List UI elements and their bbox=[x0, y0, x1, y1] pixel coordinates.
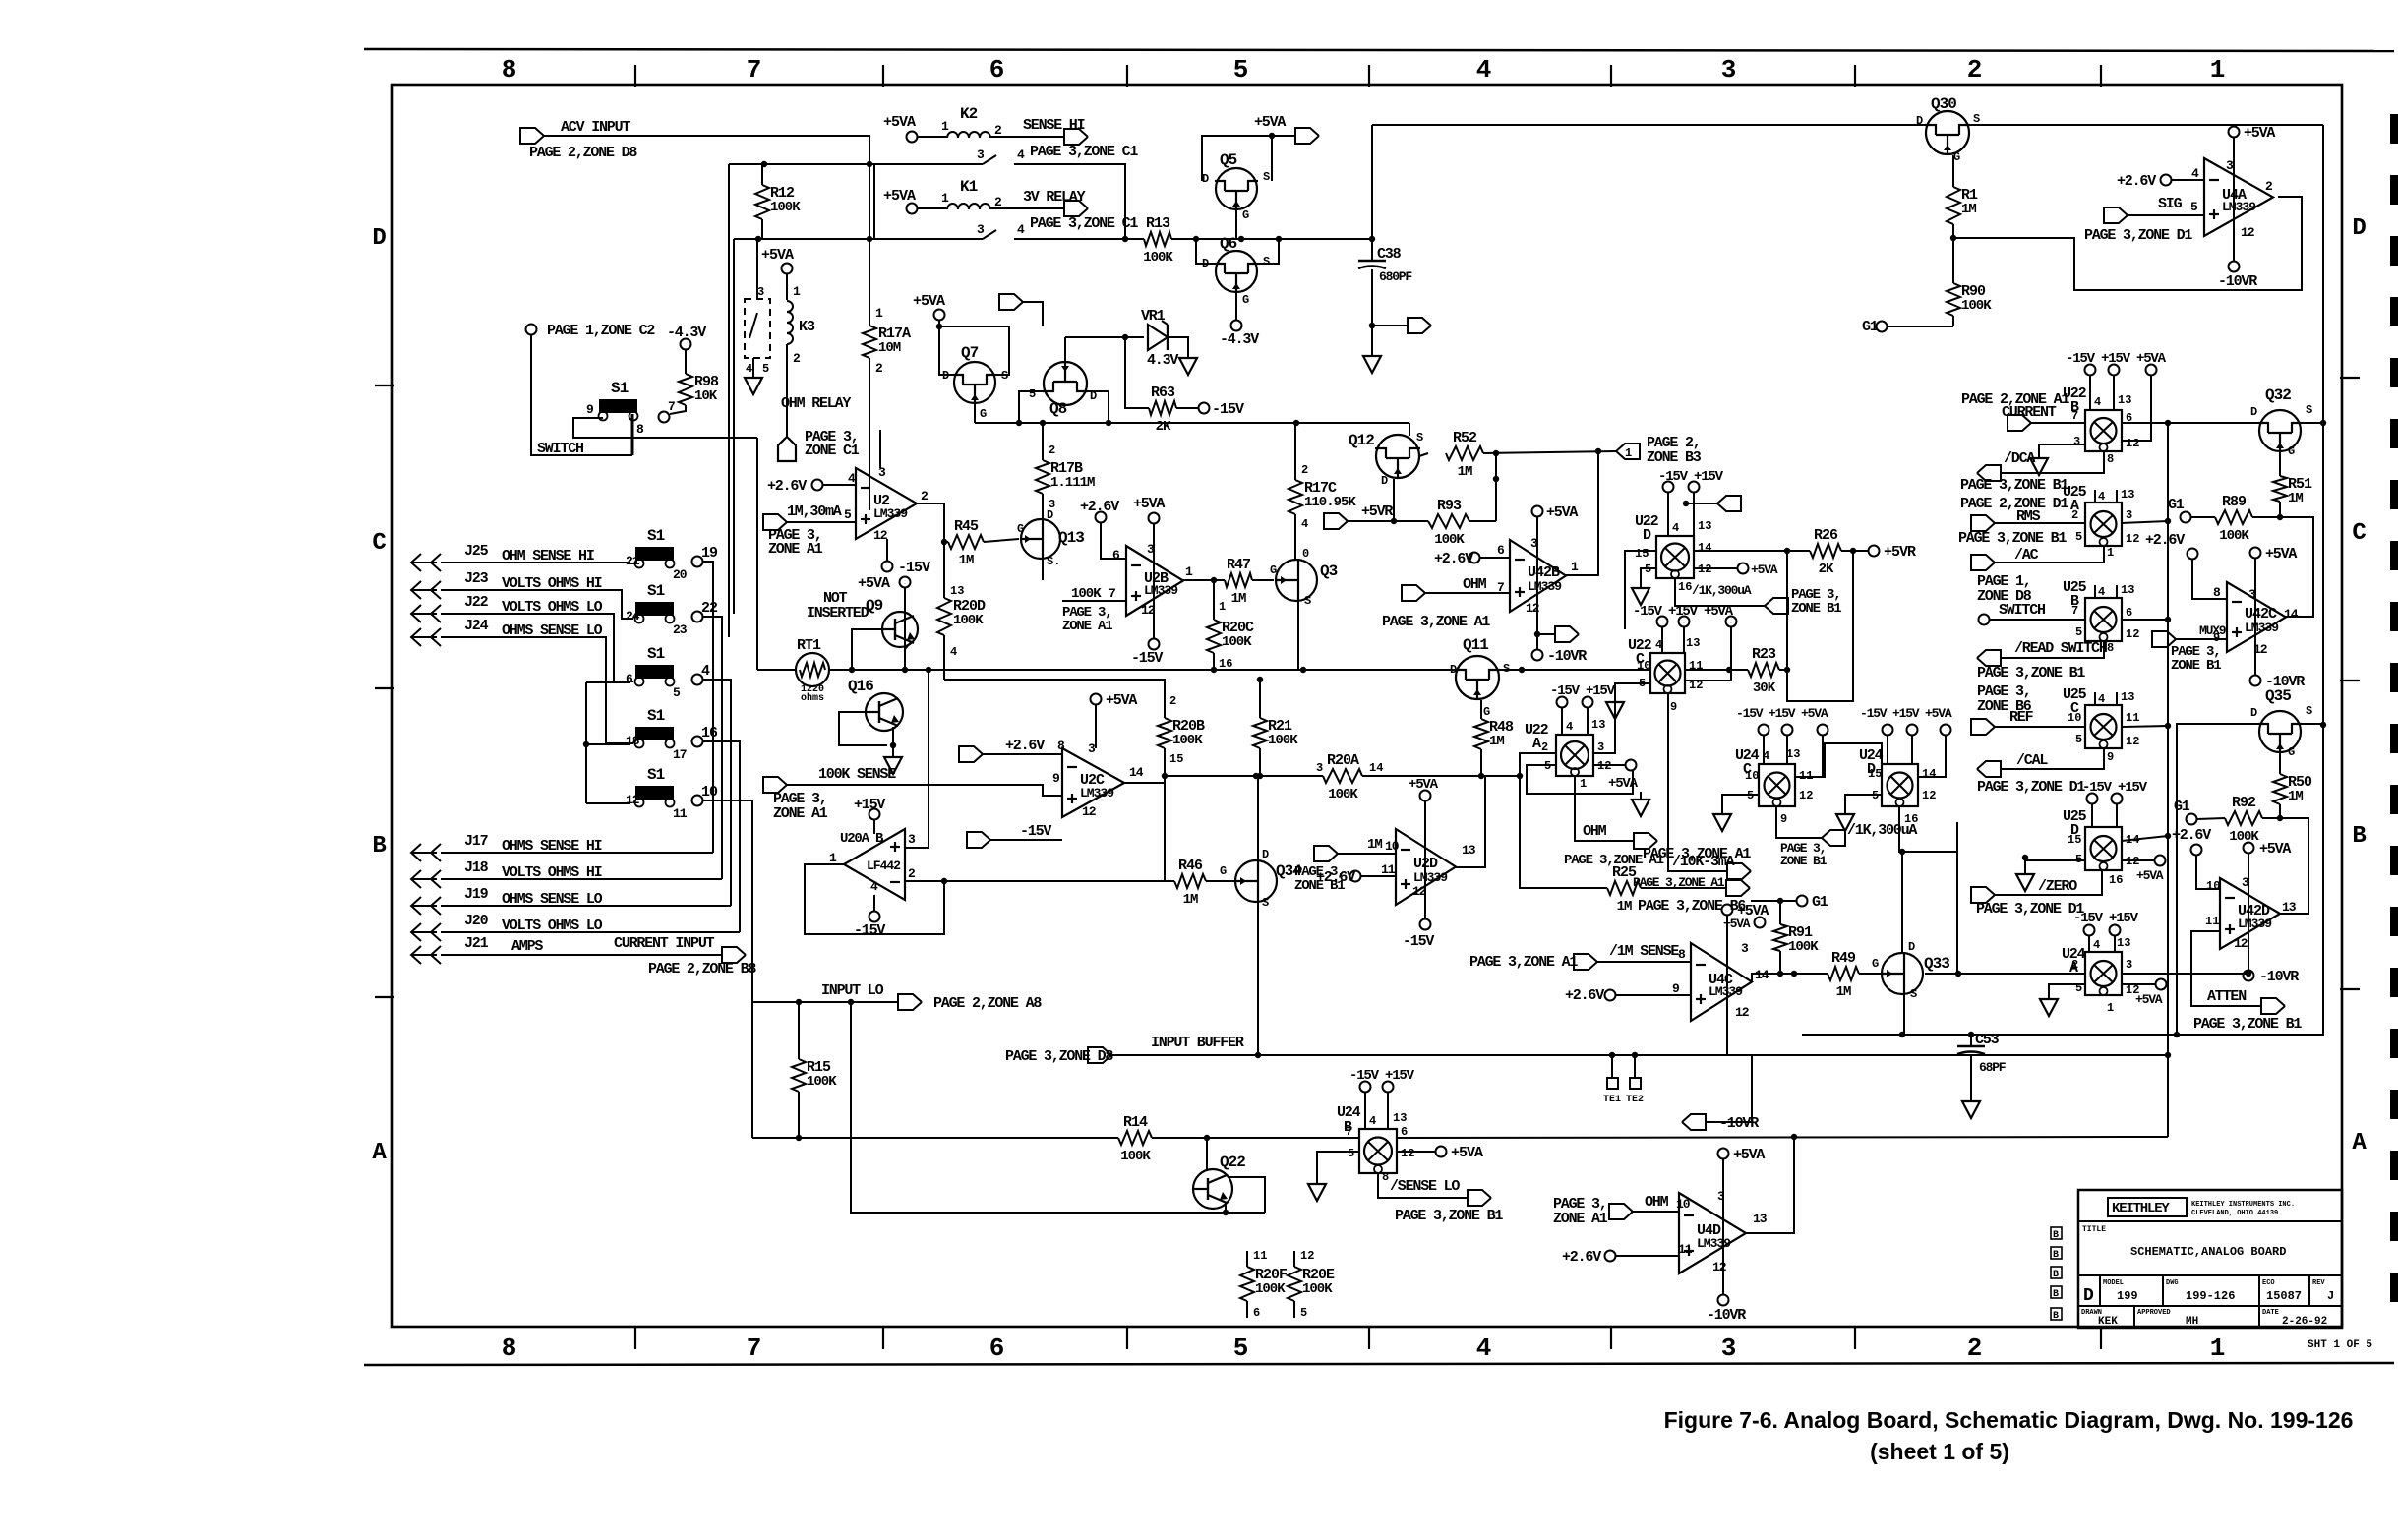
svg-text:Q22: Q22 bbox=[1220, 1154, 1245, 1171]
svg-text:100K: 100K bbox=[1120, 1149, 1151, 1164]
wire J17 bbox=[441, 852, 713, 854]
svg-text:4.3V: 4.3V bbox=[1147, 352, 1178, 369]
svg-text:G: G bbox=[1483, 705, 1490, 719]
svg-text:12: 12 bbox=[1735, 1005, 1750, 1020]
terminal +5VA U22A bbox=[1626, 760, 1637, 771]
svg-text:LM339: LM339 bbox=[1528, 579, 1562, 594]
svg-text:OHM: OHM bbox=[1645, 1194, 1669, 1211]
svg-text:C: C bbox=[2352, 520, 2366, 547]
resistor R91 bbox=[1773, 924, 1787, 951]
terminal +5VR bbox=[1869, 546, 1880, 557]
page ref flag INPUT LO bbox=[898, 994, 922, 1010]
test point TE2 bbox=[1630, 1078, 1641, 1089]
svg-text:D: D bbox=[1262, 848, 1269, 861]
wire R98 top bbox=[685, 350, 687, 374]
svg-text:8: 8 bbox=[2213, 585, 2221, 600]
connector J23 bbox=[411, 581, 441, 599]
wire U24A sup1 bbox=[2088, 936, 2090, 952]
svg-text:Q30: Q30 bbox=[1931, 95, 1956, 113]
capacitor C38 bbox=[1358, 261, 1386, 268]
svg-text:100K: 100K bbox=[770, 200, 801, 215]
wire U22B out bbox=[2122, 422, 2259, 424]
terminal +5VA U42D bbox=[2244, 843, 2254, 854]
svg-text:13: 13 bbox=[1698, 519, 1711, 533]
terminal +15V U22C bbox=[1679, 617, 1690, 627]
junction bbox=[1193, 236, 1199, 242]
svg-text:/ZERO: /ZERO bbox=[2038, 878, 2077, 895]
thermistor RT1 bbox=[796, 653, 829, 686]
op-amp U2 bbox=[856, 468, 917, 539]
op-amp U42C bbox=[2227, 582, 2286, 652]
page ref flag OHM out bbox=[1634, 833, 1657, 849]
svg-text:6: 6 bbox=[1112, 548, 1120, 563]
svg-text:-15V: -15V bbox=[1403, 933, 1434, 950]
page ref flag u22d bbox=[1717, 496, 1741, 511]
wire S1 e stub bbox=[586, 743, 630, 745]
svg-text:10M: 10M bbox=[878, 340, 901, 356]
svg-text:11: 11 bbox=[1253, 1249, 1267, 1263]
svg-text:D: D bbox=[1643, 527, 1651, 544]
transistor Q33 bbox=[1881, 952, 1923, 995]
resistor R26 bbox=[1810, 544, 1841, 558]
resistor R45 bbox=[948, 535, 984, 549]
svg-text:-15V: -15V bbox=[1131, 650, 1163, 667]
terminal -10VR U42C bbox=[2250, 676, 2261, 686]
wire S1 vert link bbox=[585, 682, 587, 803]
svg-text:8: 8 bbox=[1382, 1170, 1389, 1184]
ground U24C bbox=[1713, 806, 1731, 831]
svg-text:+5VR: +5VR bbox=[1361, 503, 1393, 520]
svg-text:+5VA: +5VA bbox=[1546, 504, 1578, 521]
svg-text:13: 13 bbox=[1786, 747, 1800, 761]
svg-text:22: 22 bbox=[701, 600, 718, 617]
svg-text:+2.6V: +2.6V bbox=[1080, 499, 1119, 515]
svg-text:R23: R23 bbox=[1752, 646, 1776, 663]
title block outline bbox=[2078, 1190, 2342, 1328]
junction bbox=[1595, 448, 1601, 454]
junction bbox=[1955, 971, 1961, 977]
wire U25B stub2 bbox=[2116, 585, 2118, 598]
page ref flag 1M SENSE bbox=[1574, 954, 1597, 970]
wire R1-R90 bbox=[1952, 224, 1954, 283]
svg-text:12: 12 bbox=[2126, 437, 2139, 450]
wire U22A sup2 bbox=[1587, 708, 1589, 735]
svg-text:D: D bbox=[1908, 940, 1915, 954]
wire TE1 bbox=[1611, 1055, 1613, 1078]
op-amp U4D bbox=[1679, 1193, 1746, 1273]
terminal +15V U22B bbox=[2109, 365, 2120, 376]
terminal +5VA U2D bbox=[1420, 791, 1431, 801]
svg-text:Q5: Q5 bbox=[1220, 151, 1237, 169]
wire K3 bottom bbox=[786, 344, 788, 437]
svg-text:LM339: LM339 bbox=[1709, 984, 1743, 999]
svg-text:12: 12 bbox=[1401, 1147, 1414, 1160]
analog switch U24B bbox=[1359, 1129, 1397, 1173]
svg-text:3: 3 bbox=[908, 832, 916, 847]
svg-text:/10K-3mA: /10K-3mA bbox=[1672, 854, 1735, 870]
wire U4D vcc bbox=[1722, 1159, 1724, 1294]
wire bus to R23 bbox=[1685, 669, 1748, 671]
wire U22C +5 to 12 bbox=[1685, 627, 1731, 681]
svg-text:100K: 100K bbox=[1268, 733, 1298, 748]
wire Q6 frame r bbox=[1257, 239, 1279, 264]
svg-text:100K: 100K bbox=[1788, 939, 1819, 955]
resistor R20F bbox=[1240, 1267, 1254, 1301]
svg-text:9: 9 bbox=[2107, 750, 2114, 764]
svg-text:J: J bbox=[2327, 1289, 2334, 1303]
svg-text:12: 12 bbox=[1526, 601, 1540, 616]
zone tick top bbox=[1854, 65, 1856, 87]
wire R90 dn bbox=[1952, 316, 1954, 326]
wire relay contact row 1 bbox=[729, 163, 983, 165]
wire R26 out bbox=[1841, 550, 1868, 552]
wire top bus bbox=[1372, 124, 1925, 126]
svg-text:6: 6 bbox=[1497, 543, 1505, 558]
svg-text:LM339: LM339 bbox=[2245, 621, 2279, 635]
svg-text:2: 2 bbox=[1967, 1333, 1982, 1363]
wire right vert x2204 bbox=[2167, 423, 2169, 1137]
svg-text:100K: 100K bbox=[1255, 1281, 1286, 1297]
wire y990 bbox=[1794, 973, 1828, 975]
svg-text:16: 16 bbox=[1678, 580, 1692, 594]
svg-text:4: 4 bbox=[701, 663, 710, 680]
svg-text:10: 10 bbox=[2206, 879, 2220, 893]
wire R49 out bbox=[1859, 973, 1881, 975]
resistor R49 bbox=[1828, 967, 1859, 980]
svg-text:J19: J19 bbox=[464, 886, 489, 903]
svg-text:VR1: VR1 bbox=[1141, 308, 1166, 325]
svg-text:1: 1 bbox=[2210, 1333, 2225, 1363]
transistor Q30 bbox=[1925, 111, 1970, 155]
wire R93 leads bbox=[1394, 520, 1428, 522]
contact K3 blade bbox=[749, 313, 757, 338]
svg-text:Q35: Q35 bbox=[2265, 687, 2291, 705]
svg-text:ECO: ECO bbox=[2262, 1279, 2275, 1287]
terminal -4.3V Q6 bbox=[1231, 321, 1242, 331]
svg-text:10: 10 bbox=[2068, 711, 2081, 725]
svg-text:16: 16 bbox=[2109, 873, 2123, 887]
svg-text:R92: R92 bbox=[2232, 795, 2256, 811]
svg-text:8: 8 bbox=[1057, 739, 1065, 753]
resistor R47 bbox=[1225, 573, 1252, 587]
test point TE1 bbox=[1607, 1078, 1618, 1089]
wire U4D in+ bbox=[1616, 1255, 1679, 1257]
junction bbox=[2277, 514, 2283, 520]
svg-text:LM339: LM339 bbox=[873, 506, 908, 521]
svg-text:1M: 1M bbox=[1489, 734, 1504, 749]
wire main bus 681 a bbox=[757, 669, 795, 671]
junction bbox=[1791, 1134, 1797, 1140]
terminal +5VA K2 bbox=[907, 132, 918, 143]
terminal +5VA U24D bbox=[1941, 725, 1951, 736]
svg-text:KEITHLEY INSTRUMENTS INC.: KEITHLEY INSTRUMENTS INC. bbox=[2191, 1201, 2295, 1209]
terminal +2.6V U42C bbox=[2188, 549, 2198, 560]
svg-text:LM339: LM339 bbox=[1413, 870, 1448, 885]
svg-text:5: 5 bbox=[673, 685, 681, 700]
svg-text:-10VR: -10VR bbox=[1707, 1307, 1746, 1324]
terminal +2.6V U2 bbox=[812, 480, 823, 491]
svg-text:12: 12 bbox=[1141, 603, 1156, 618]
wire R92 lead bbox=[2197, 818, 2225, 819]
wire U20A fb right bbox=[944, 880, 1165, 882]
wire U22C pin5 bbox=[1615, 683, 1650, 698]
wire Q16 base bbox=[839, 712, 887, 745]
terminal +5VA K3 bbox=[782, 264, 793, 274]
wire U42B out bbox=[1566, 451, 1598, 575]
wire R47 w bbox=[1214, 579, 1225, 581]
wire U22A out bbox=[1593, 702, 1615, 753]
wire TE2 bbox=[1634, 1055, 1636, 1078]
wire R46 in bbox=[943, 880, 1174, 882]
wire U2 V- bbox=[886, 539, 888, 561]
junction bbox=[1300, 667, 1306, 673]
svg-text:A: A bbox=[2352, 1130, 2367, 1156]
svg-text:D: D bbox=[1202, 257, 1209, 270]
svg-text:1: 1 bbox=[2210, 55, 2225, 85]
svg-text:S1: S1 bbox=[647, 527, 665, 545]
wire INPUT BUFFER bbox=[1111, 1054, 2168, 1056]
wire U24 right v bbox=[1956, 822, 1958, 974]
terminal +5VA U42C bbox=[2250, 548, 2261, 559]
page ref flag -10VR U4C bbox=[1682, 1114, 1706, 1130]
svg-text:-15V: -15V bbox=[854, 922, 885, 939]
page ref flag mid bbox=[999, 294, 1023, 310]
svg-text:B: B bbox=[2053, 1250, 2059, 1261]
svg-text:S: S bbox=[2306, 704, 2312, 718]
page ref flag 3V RELAY bbox=[1064, 201, 1088, 216]
svg-text:SIG: SIG bbox=[2158, 196, 2183, 212]
wire R15 dn bbox=[798, 1092, 800, 1138]
svg-text:+5VA: +5VA bbox=[2136, 868, 2164, 883]
wire U22A pin1 bbox=[1575, 776, 1635, 841]
svg-text:11: 11 bbox=[2205, 915, 2219, 928]
junction bbox=[2165, 420, 2171, 426]
wire J18 bbox=[441, 878, 722, 880]
svg-text:1: 1 bbox=[941, 191, 949, 206]
wire R21 up bbox=[1259, 680, 1261, 718]
svg-text:D: D bbox=[942, 369, 949, 383]
svg-text:+5VR: +5VR bbox=[1884, 544, 1916, 561]
svg-text:14: 14 bbox=[1922, 767, 1936, 781]
junction bbox=[2165, 518, 2171, 524]
page ref flag DCA bbox=[1977, 465, 2001, 481]
junction bbox=[849, 667, 855, 673]
terminal S1 f right bbox=[692, 796, 703, 806]
svg-text:12: 12 bbox=[2126, 735, 2139, 748]
resistor R12 bbox=[755, 185, 769, 219]
svg-text:+2.6V: +2.6V bbox=[1434, 551, 1473, 567]
capacitor C53 bbox=[1957, 1046, 1985, 1054]
svg-text:4: 4 bbox=[1017, 222, 1025, 237]
wire K1 coil bbox=[918, 207, 946, 209]
wire U22C sup2 bbox=[1683, 627, 1685, 653]
wire J24 bbox=[441, 637, 633, 743]
resistor R17A bbox=[863, 326, 876, 358]
wire -15V U2C bbox=[990, 839, 1062, 841]
junction bbox=[1122, 334, 1128, 340]
terminal G1 R92 bbox=[2187, 814, 2197, 825]
ground K3 bbox=[745, 370, 762, 394]
wire U24A sup2 bbox=[2114, 936, 2116, 952]
svg-text:-15V: -15V bbox=[898, 560, 930, 576]
terminal +2.6V U2B bbox=[1096, 512, 1107, 523]
junction bbox=[2277, 815, 2283, 821]
wire 1K300 net bbox=[1902, 851, 1957, 853]
junction bbox=[2320, 722, 2326, 728]
svg-text:1M: 1M bbox=[1617, 899, 1632, 915]
title block divider 2 bbox=[2078, 1274, 2342, 1276]
wire switch stub bbox=[631, 414, 634, 455]
page ref flag C38 bbox=[1408, 318, 1431, 333]
wire Q5 gate bbox=[1235, 210, 1237, 239]
wire Q22 coll bbox=[1228, 1177, 1265, 1213]
wire U25C stub1 bbox=[2094, 692, 2096, 705]
wire U22B sup1 bbox=[2089, 376, 2091, 410]
svg-text:680PF: 680PF bbox=[1379, 269, 1412, 284]
svg-text:2: 2 bbox=[793, 351, 801, 366]
wire U25B stub1 bbox=[2094, 585, 2096, 598]
svg-text:G: G bbox=[1242, 293, 1249, 307]
switch S1 section S1 e bbox=[635, 727, 675, 748]
page ref flag READ SWITCH bbox=[1977, 650, 2001, 666]
outer border top line bbox=[364, 49, 2394, 51]
wire R12 leads bbox=[761, 164, 763, 185]
wire U25C out bbox=[2122, 726, 2168, 727]
svg-text:+5VA: +5VA bbox=[1733, 1147, 1765, 1163]
svg-text:SENSE HI: SENSE HI bbox=[1023, 117, 1085, 134]
svg-text:PAGE 3,ZONE D8: PAGE 3,ZONE D8 bbox=[1005, 1048, 1113, 1065]
svg-text:/1K,300uA: /1K,300uA bbox=[1692, 583, 1752, 598]
terminal +15V U24D bbox=[1907, 725, 1918, 736]
svg-text:+2.6V: +2.6V bbox=[1565, 987, 1604, 1004]
svg-text:/DCA: /DCA bbox=[2004, 450, 2035, 467]
junction bbox=[1784, 667, 1790, 673]
page ref flag -15V U2C bbox=[967, 832, 990, 848]
svg-text:21: 21 bbox=[626, 554, 640, 568]
svg-text:1: 1 bbox=[941, 119, 949, 134]
wire Q33 source bbox=[1903, 995, 1905, 1035]
svg-text:2: 2 bbox=[908, 866, 916, 881]
resistor R51 bbox=[2273, 476, 2287, 502]
svg-text:1M: 1M bbox=[1183, 892, 1198, 908]
svg-text:110.95K: 110.95K bbox=[1304, 495, 1356, 510]
wire U4A vcc bbox=[2233, 138, 2235, 261]
svg-text:16: 16 bbox=[1219, 657, 1232, 671]
wire U20A fb bbox=[805, 864, 944, 934]
svg-text:13: 13 bbox=[1393, 1111, 1407, 1125]
svg-text:7: 7 bbox=[2071, 604, 2078, 618]
junction bbox=[1391, 518, 1397, 524]
svg-text:LM339: LM339 bbox=[1697, 1236, 1731, 1251]
svg-text:13: 13 bbox=[1686, 636, 1700, 650]
wire R51 dn bbox=[2279, 502, 2281, 517]
wire switch to bus bbox=[573, 418, 757, 438]
svg-text:+5VA: +5VA bbox=[2265, 546, 2297, 563]
wire R25 vert bbox=[1520, 776, 1607, 888]
svg-text:100K: 100K bbox=[1222, 634, 1252, 650]
svg-text:PAGE 1,ZONE C2: PAGE 1,ZONE C2 bbox=[547, 323, 655, 339]
wire U24B pin5 bbox=[1317, 1152, 1359, 1178]
wire main bus 681 b bbox=[830, 669, 1457, 671]
wire flag mid bbox=[1023, 302, 1043, 326]
switch S1 section S1 c bbox=[635, 602, 675, 623]
svg-text:PAGE 3,ZONE B1: PAGE 3,ZONE B1 bbox=[1958, 530, 2067, 547]
terminal +15V U24B bbox=[1383, 1082, 1394, 1093]
svg-text:D: D bbox=[372, 225, 386, 252]
svg-text:2-26-92: 2-26-92 bbox=[2282, 1316, 2327, 1328]
svg-text:12: 12 bbox=[1922, 789, 1936, 802]
svg-text:C53: C53 bbox=[1975, 1032, 2000, 1048]
junction bbox=[1276, 236, 1282, 242]
wire U25D pin5 bbox=[2025, 860, 2085, 870]
svg-text:2: 2 bbox=[2071, 958, 2078, 972]
wire U22A sup1 bbox=[1561, 708, 1563, 735]
wire U22D sup1 bbox=[1667, 493, 1669, 536]
svg-text:1: 1 bbox=[793, 284, 801, 299]
svg-text:13: 13 bbox=[2117, 936, 2130, 950]
ground U22A bbox=[1632, 792, 1649, 816]
zone tick top bbox=[1126, 65, 1128, 87]
svg-text:9: 9 bbox=[1052, 771, 1060, 786]
svg-text:14: 14 bbox=[2284, 607, 2299, 622]
wire U2B out bbox=[1183, 579, 1214, 581]
svg-text:3: 3 bbox=[1721, 55, 1736, 85]
page ref flag +5VA top bbox=[1295, 128, 1319, 144]
title block col 3 bbox=[2258, 1275, 2260, 1306]
svg-text:5: 5 bbox=[2190, 200, 2198, 214]
svg-text:TITLE: TITLE bbox=[2082, 1225, 2106, 1234]
svg-text:CURRENT INPUT: CURRENT INPUT bbox=[614, 935, 715, 952]
junction bbox=[941, 539, 947, 545]
svg-text:3: 3 bbox=[1316, 761, 1323, 775]
svg-text:-4.3V: -4.3V bbox=[1220, 331, 1259, 348]
svg-text:S1: S1 bbox=[611, 380, 629, 397]
svg-text:6: 6 bbox=[1253, 1306, 1260, 1320]
svg-text:S: S bbox=[1001, 369, 1008, 383]
wire U42D in+ bbox=[2191, 931, 2261, 1006]
page ref flag +5VR bbox=[1324, 513, 1348, 529]
svg-text:R13: R13 bbox=[1146, 215, 1170, 232]
svg-text:Q33: Q33 bbox=[1924, 955, 1949, 973]
wire +2.6V U2C in bbox=[983, 753, 1062, 755]
svg-text:ZONE A1: ZONE A1 bbox=[773, 805, 828, 822]
svg-text:-15V +15V +5VA: -15V +15V +5VA bbox=[1860, 706, 1952, 721]
svg-text:5: 5 bbox=[1233, 55, 1248, 85]
svg-text:J21: J21 bbox=[464, 935, 489, 952]
svg-text:J18: J18 bbox=[464, 859, 489, 876]
svg-text:S: S bbox=[1263, 255, 1270, 268]
svg-text:R89: R89 bbox=[2222, 494, 2247, 510]
page ref flag +2.6V U2C bbox=[959, 746, 983, 762]
svg-text:+5VA: +5VA bbox=[858, 575, 890, 592]
svg-text:S: S bbox=[1304, 594, 1311, 608]
wire U2D in+ bbox=[1361, 875, 1396, 877]
wire Q32 gate bbox=[2279, 452, 2281, 476]
terminal -15V U24B bbox=[1360, 1082, 1371, 1093]
wire U2 out bbox=[917, 503, 948, 542]
svg-text:D: D bbox=[2352, 215, 2366, 242]
wire U25A stub1 bbox=[2094, 490, 2096, 503]
wire bus 691 bbox=[944, 680, 1165, 718]
wire U4D in- bbox=[1633, 1211, 1679, 1213]
ground VR1 bbox=[1179, 350, 1197, 375]
junction bbox=[1899, 1032, 1905, 1037]
svg-text:9: 9 bbox=[1672, 981, 1680, 996]
wire R20E up bbox=[1293, 1251, 1295, 1267]
svg-text:16: 16 bbox=[701, 725, 718, 741]
wire J20 bbox=[441, 931, 740, 933]
wire U20A vee bbox=[873, 895, 875, 911]
